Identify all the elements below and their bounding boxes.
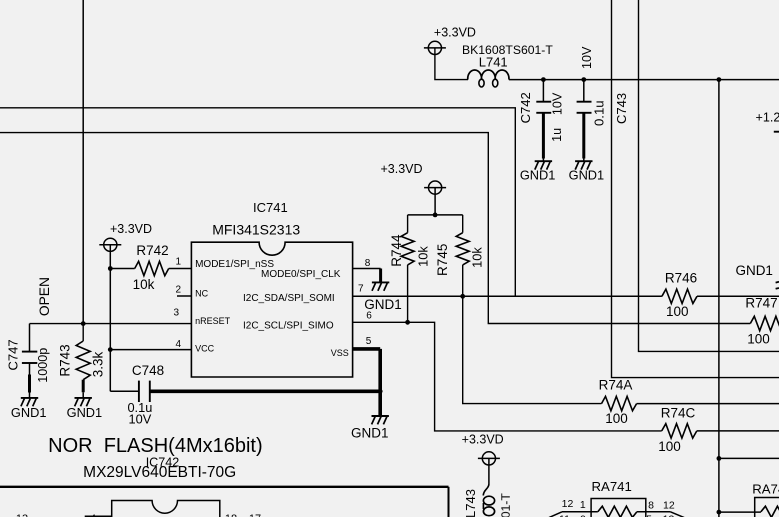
svg-text:100: 100 [747,331,770,346]
ground symbol fragment (right edge) [776,281,779,284]
svg-text:9: 9 [580,514,586,517]
svg-text:17: 17 [249,513,261,517]
node: bus branch y=458 [717,456,722,461]
svg-text:11: 11 [559,514,570,517]
resistor array RA741 body [591,499,646,517]
svg-text:MFI341S2313: MFI341S2313 [212,222,300,238]
svg-text:R743: R743 [58,344,73,376]
node: VSS/C748 junction [378,389,383,394]
svg-text:1: 1 [580,499,586,511]
node: pin7/R745 junction [460,294,465,299]
svg-text:I2C_SDA/SPI_SOMI: I2C_SDA/SPI_SOMI [243,293,335,304]
wire: C748 left lead [110,390,138,392]
svg-text:10k: 10k [133,277,155,292]
svg-text:+1.2VD: +1.2VD [756,111,779,125]
svg-text:12: 12 [663,500,675,512]
svg-text:VCC: VCC [195,344,215,354]
ground GND1 (C742) [535,160,552,162]
wire C743 net 2 (vertical from top, fans right) [639,0,779,351]
svg-text:8: 8 [648,500,654,512]
wire: branch to RA742 [719,511,761,513]
wire B: SPI_SIMO net from left edge, corner down, to R747 [0,133,750,324]
wire: pin7 branch down to R74A [463,296,602,403]
capacitor C744 plates [577,101,592,103]
svg-text:13: 13 [663,514,675,517]
inductor L743 [488,458,490,484]
svg-text:OPEN: OPEN [37,277,52,316]
svg-text:GND1: GND1 [11,405,47,420]
svg-text:100: 100 [605,411,628,426]
svg-text:L743: L743 [463,489,478,517]
ground GND1 (VSS) [372,415,389,417]
svg-text:NC: NC [195,289,208,299]
wire nRESET (pin3) [30,323,192,325]
node: bus branch y=512 [717,510,722,515]
wire: nRESET down to C747 [29,324,31,351]
capacitor C742 plates [536,101,551,103]
svg-text:R745: R745 [435,244,450,276]
wire pin8 to ground [353,268,381,270]
capacitor C747 plates [22,351,37,353]
resistor R747 (cut at right edge) [750,316,779,330]
svg-text:L741: L741 [479,54,508,69]
svg-text:R747: R747 [745,295,777,310]
svg-text:C748: C748 [132,363,164,378]
svg-text:6: 6 [366,311,372,322]
svg-text:R746: R746 [665,271,697,286]
wire pin7 SPI_SOMI to R746 [353,295,662,297]
svg-text:+3.3VD: +3.3VD [462,432,504,446]
wire: C748 to VSS ground bus (thick) [150,389,380,393]
ground GND1 (C747) [21,397,38,399]
svg-text:+3.3VD: +3.3VD [434,26,476,40]
capacitor C742 ground lead [542,113,545,159]
wire pin6 SPI_SIMO [353,322,662,431]
resistor array RA742 body (cut) [755,498,779,517]
wire VCC (pin4) [110,349,191,351]
svg-text:4: 4 [90,513,96,517]
svg-text:NOR FLASH(4Mx16bit): NOR FLASH(4Mx16bit) [48,435,263,457]
wire: +3.3VD down to L741 rail [435,48,468,80]
svg-text:8: 8 [365,258,371,269]
svg-text:MX29LV640EBTI-70G: MX29LV640EBTI-70G [83,464,236,481]
capacitor C742 lead [542,80,544,101]
svg-text:R742: R742 [136,243,168,258]
svg-text:C742: C742 [518,92,533,123]
resistor RA742 element (cut) [761,506,779,517]
NOR flash IC742 body (cut at bottom) [112,501,220,517]
svg-text:+3.3VD: +3.3VD [110,222,152,236]
svg-text:100: 100 [666,304,689,319]
svg-text:C747: C747 [6,339,21,370]
svg-text:nRESET: nRESET [195,316,231,326]
svg-text:100: 100 [658,439,681,454]
svg-text:GND1: GND1 [364,297,402,312]
svg-text:5: 5 [646,514,652,517]
svg-text:0.1u: 0.1u [591,100,606,126]
op-amp IC IC741 body MFI341S2313 [191,242,352,377]
wire: vertical branch to VCC and C748 [109,269,111,392]
svg-text:10k: 10k [470,247,485,268]
wire pin5 VSS to ground (thick) [353,347,381,351]
resistor R744 [407,215,409,233]
svg-text:RA741: RA741 [592,479,632,494]
wire A: SPI_SOMI net from left edge, corner down at x=515.3 [0,108,515,296]
svg-text:GND1: GND1 [351,426,389,441]
svg-text:BK1608TS601-T: BK1608TS601-T [499,493,513,517]
svg-text:7: 7 [358,283,364,294]
divider line (block frame corner) [0,486,449,488]
wire: pullup rail [434,188,436,215]
svg-text:10V: 10V [129,412,152,427]
svg-text:13: 13 [16,513,28,517]
svg-text:2: 2 [175,285,181,296]
svg-text:1u: 1u [550,128,564,142]
node: pin6/R744 junction [405,320,410,325]
power +3.3VD (L743) [482,452,495,465]
ground GND1 (pin8) [372,281,389,283]
node: R743 tap on nRESET [81,321,86,326]
svg-text:18: 18 [225,513,237,517]
svg-text:I2C_SCL/SPI_SIMO: I2C_SCL/SPI_SIMO [243,321,334,332]
pin 2 stub [177,295,191,297]
svg-text:RA74: RA74 [752,482,779,497]
node: R742/VCC branch [108,266,113,271]
power +3.3VD (top) [428,41,441,54]
svg-text:MODE0/SPI_CLK: MODE0/SPI_CLK [261,269,341,280]
resistor R746 [662,289,697,303]
resistor R742 [110,268,134,270]
ground GND1 (C744) [575,160,592,162]
wire: right vertical bus x=719 [718,80,720,517]
svg-text:GND1: GND1 [67,405,103,420]
wire RA741 left [562,511,598,513]
wire: R74A to right edge [637,403,779,405]
ground GND1 (R743) [75,397,92,399]
capacitor C744 lead [583,80,585,101]
node: VCC tap [108,347,113,352]
wire C743 net 1 (vertical from top, fans right) [612,0,779,378]
resistor R743 [82,324,84,341]
svg-text:GND1: GND1 [735,263,773,278]
power +3.3VD (pullups) [429,181,442,194]
wire: +3.3VD down to pin1 node [109,245,111,269]
svg-text:C743: C743 [614,93,629,124]
capacitor C747 ground lead [29,363,31,375]
svg-text:VSS: VSS [331,348,349,358]
node: C742 tap [541,77,546,82]
pin stub IC742 [85,515,112,517]
resistor RA741 element [598,506,637,517]
capacitor C748 plates [138,381,140,402]
resistor R74C [662,424,697,438]
svg-text:10k: 10k [415,246,430,267]
svg-text:3: 3 [173,308,179,319]
svg-text:10V: 10V [580,46,594,69]
wire: long vertical net from top edge to nRESET node [82,0,84,324]
svg-text:GND1: GND1 [520,168,556,183]
node: C744 tap [581,77,586,82]
resistor R74A [602,396,637,410]
svg-text:4: 4 [175,339,181,350]
svg-text:GND1: GND1 [569,168,605,183]
svg-text:IC741: IC741 [253,200,288,215]
resistor R745 [462,215,464,233]
power symbol fragment at right edge [774,131,779,133]
capacitor C744 ground lead [582,113,585,159]
svg-text:1: 1 [175,256,181,267]
node: rail center [433,213,438,218]
inductor L741 [468,70,509,80]
svg-text:R74C: R74C [661,406,696,421]
svg-text:12: 12 [562,498,574,510]
svg-text:5: 5 [366,336,372,347]
svg-text:1000p: 1000p [36,348,50,383]
wire: R74C to right edge [697,430,779,432]
svg-text:+3.3VD: +3.3VD [380,162,422,176]
node: right bus tap [717,77,722,82]
svg-text:R74A: R74A [599,378,633,393]
power +3.3VD (R742) [104,238,117,251]
svg-text:3.3k: 3.3k [91,351,106,377]
svg-text:10V: 10V [551,92,565,115]
wire: +3.3VD rail to right edge [509,79,779,81]
svg-text:R744: R744 [389,234,404,267]
wire RA741 right [637,511,671,513]
wire: branch to right edge y=458 [719,457,779,459]
